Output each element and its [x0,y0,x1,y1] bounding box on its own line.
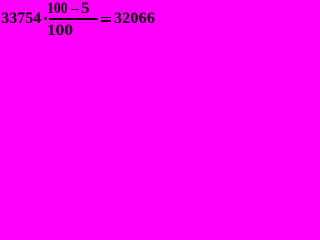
numerator 100 [47,1,68,17]
numerator minus [71,9,79,11]
fraction bar [49,18,99,20]
multiplication dot [44,17,47,20]
factor 33754 [1,11,41,27]
numerator 5 [81,1,90,17]
denominator 100 [47,23,73,39]
result 32066 [114,11,155,27]
equals top bar [101,17,112,19]
equals bottom bar [101,20,112,22]
